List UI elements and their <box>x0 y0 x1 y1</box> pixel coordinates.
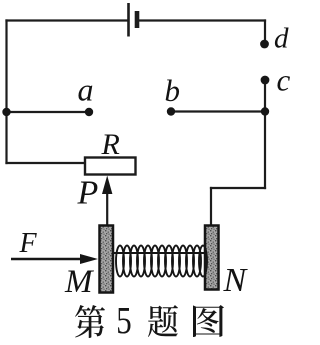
wire node to contact a <box>7 111 90 113</box>
force F arrowhead <box>80 254 98 264</box>
node dot left junction <box>2 108 10 116</box>
wire left into rheostat R <box>7 162 86 164</box>
wire slider stem from M up to arrowhead <box>106 191 108 226</box>
node dot contact a <box>85 108 93 116</box>
wire down into N electrode <box>210 188 212 226</box>
svg-text:R: R <box>101 128 120 161</box>
wire stub c down to junction <box>264 83 266 111</box>
electrode M plate <box>100 226 114 293</box>
wire right drop to switch point d <box>264 21 266 41</box>
slider P arrowhead <box>102 176 112 195</box>
svg-text:P: P <box>77 175 99 212</box>
battery cell B1 long plate <box>127 3 130 37</box>
node dot contact c <box>261 76 270 85</box>
caption char 题 <box>148 305 178 337</box>
svg-text:c: c <box>277 63 291 98</box>
force F arrow shaft <box>11 258 82 260</box>
wire junction down right side <box>264 112 266 189</box>
wire horizontal jog right-to-left above N <box>211 187 265 189</box>
caption char 第 <box>75 305 105 338</box>
svg-text:N: N <box>223 262 249 299</box>
caption char 图 <box>193 305 224 337</box>
battery cell B1 short thick plate <box>135 11 140 28</box>
wire top-right horizontal from battery to right corner <box>140 19 265 21</box>
svg-text:M: M <box>64 264 94 300</box>
svg-text:d: d <box>274 23 289 55</box>
svg-text:F: F <box>19 228 38 259</box>
electrode N plate <box>205 226 219 290</box>
spring coils <box>116 246 207 277</box>
resistor R body <box>85 158 136 175</box>
wire b to junction <box>171 110 265 112</box>
node dot junction right <box>261 107 269 115</box>
wire top-left horizontal from corner to battery <box>7 19 127 21</box>
node dot contact b <box>167 107 175 115</box>
node dot contact d <box>260 40 269 49</box>
svg-text:a: a <box>78 72 94 108</box>
caption char digit 5 <box>118 308 130 334</box>
wire left vertical side <box>5 21 7 164</box>
spring top connecting line <box>113 252 206 254</box>
svg-text:b: b <box>165 73 181 108</box>
caption 第 5 题图 placeholder <box>75 305 224 338</box>
